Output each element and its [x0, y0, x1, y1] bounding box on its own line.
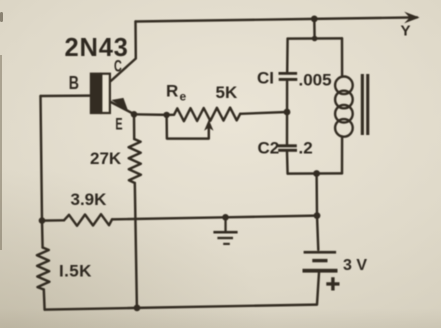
- battery B1 plate long bottom: [303, 269, 338, 273]
- wire collector vertical: [111, 22, 136, 82]
- wire left column lower: [43, 290, 46, 310]
- svg-text:3 V: 3 V: [343, 257, 367, 274]
- junction dot bottom rail: [134, 305, 141, 312]
- svg-text:e: e: [180, 90, 187, 104]
- svg-text:.005: .005: [299, 71, 332, 90]
- inductor L1 coil: [335, 77, 353, 137]
- junction dot bias left node: [39, 217, 46, 224]
- junction dot tank bottom: [313, 170, 320, 177]
- capacitor C2 plates: [278, 144, 297, 147]
- wire tank left branch upper: [286, 39, 289, 72]
- ground symbol: [224, 217, 226, 232]
- wire base lead: [41, 94, 90, 97]
- resistor Re 5K (potentiometer track): [167, 108, 241, 122]
- resistor R 3.9K: [64, 214, 112, 226]
- resistor R 27K: [129, 139, 141, 183]
- transformer iron core bars: [361, 74, 364, 135]
- svg-text:Y: Y: [401, 23, 411, 40]
- wire battery top lead: [317, 216, 318, 250]
- wire 27K lower lead: [135, 183, 137, 308]
- wire tank bottom edge: [288, 172, 342, 175]
- wire tank right branch upper: [341, 38, 344, 76]
- capacitor C1 plates: [279, 72, 298, 75]
- output arrowhead Y: [404, 12, 419, 24]
- wire battery bottom lead: [317, 273, 319, 305]
- junction dot tank left node: [284, 109, 291, 116]
- wire 27K upper lead: [133, 114, 136, 139]
- wire pot to tank node: [240, 112, 287, 114]
- svg-text:.2: .2: [299, 139, 313, 158]
- svg-text:E: E: [115, 114, 122, 133]
- junction dot battery top node: [314, 212, 321, 219]
- svg-text:CI: CI: [257, 69, 274, 88]
- svg-text:C2: C2: [258, 139, 280, 158]
- wire tank to battery: [315, 174, 318, 216]
- wire top rail: [136, 17, 418, 21]
- wire emitter lead: [111, 102, 134, 114]
- junction dot pot left node: [163, 112, 169, 118]
- wire potentiometer wiper return: [167, 115, 209, 139]
- svg-text:I.5K: I.5K: [59, 262, 92, 281]
- wire bottom rail: [45, 305, 317, 310]
- plus sign battery polarity: [326, 277, 339, 290]
- svg-text:R: R: [166, 81, 178, 100]
- wire tank left branch lower: [286, 152, 289, 174]
- junction dot ground node: [222, 214, 229, 221]
- wire tank top edge: [288, 37, 342, 40]
- junction dot top rail: [311, 16, 318, 23]
- svg-text:B: B: [69, 73, 79, 93]
- wire bias row: [42, 219, 64, 222]
- battery B1 plate short: [312, 259, 327, 262]
- emitter arrowhead: [112, 98, 129, 112]
- resistor R 1.5K: [37, 248, 50, 290]
- svg-text:3.9K: 3.9K: [71, 190, 108, 209]
- wire tank feed vertical: [313, 19, 316, 39]
- potentiometer wiper arrowhead: [204, 120, 213, 131]
- battery B1 plate long top: [304, 251, 337, 254]
- wire left column upper: [41, 96, 43, 248]
- wire tank right branch lower: [341, 137, 344, 174]
- wire tank left branch middle: [286, 81, 289, 144]
- transistor Q1 base bar outline: [101, 74, 110, 113]
- junction dot tank top: [312, 36, 318, 42]
- svg-text:27K: 27K: [90, 149, 122, 168]
- svg-text:5K: 5K: [216, 83, 238, 102]
- transistor Q1 base bar solid: [90, 73, 102, 115]
- junction dot emitter node: [131, 111, 138, 118]
- wire bias row right: [112, 216, 317, 220]
- wire emitter node to pot: [134, 113, 167, 116]
- svg-text:C: C: [114, 56, 122, 75]
